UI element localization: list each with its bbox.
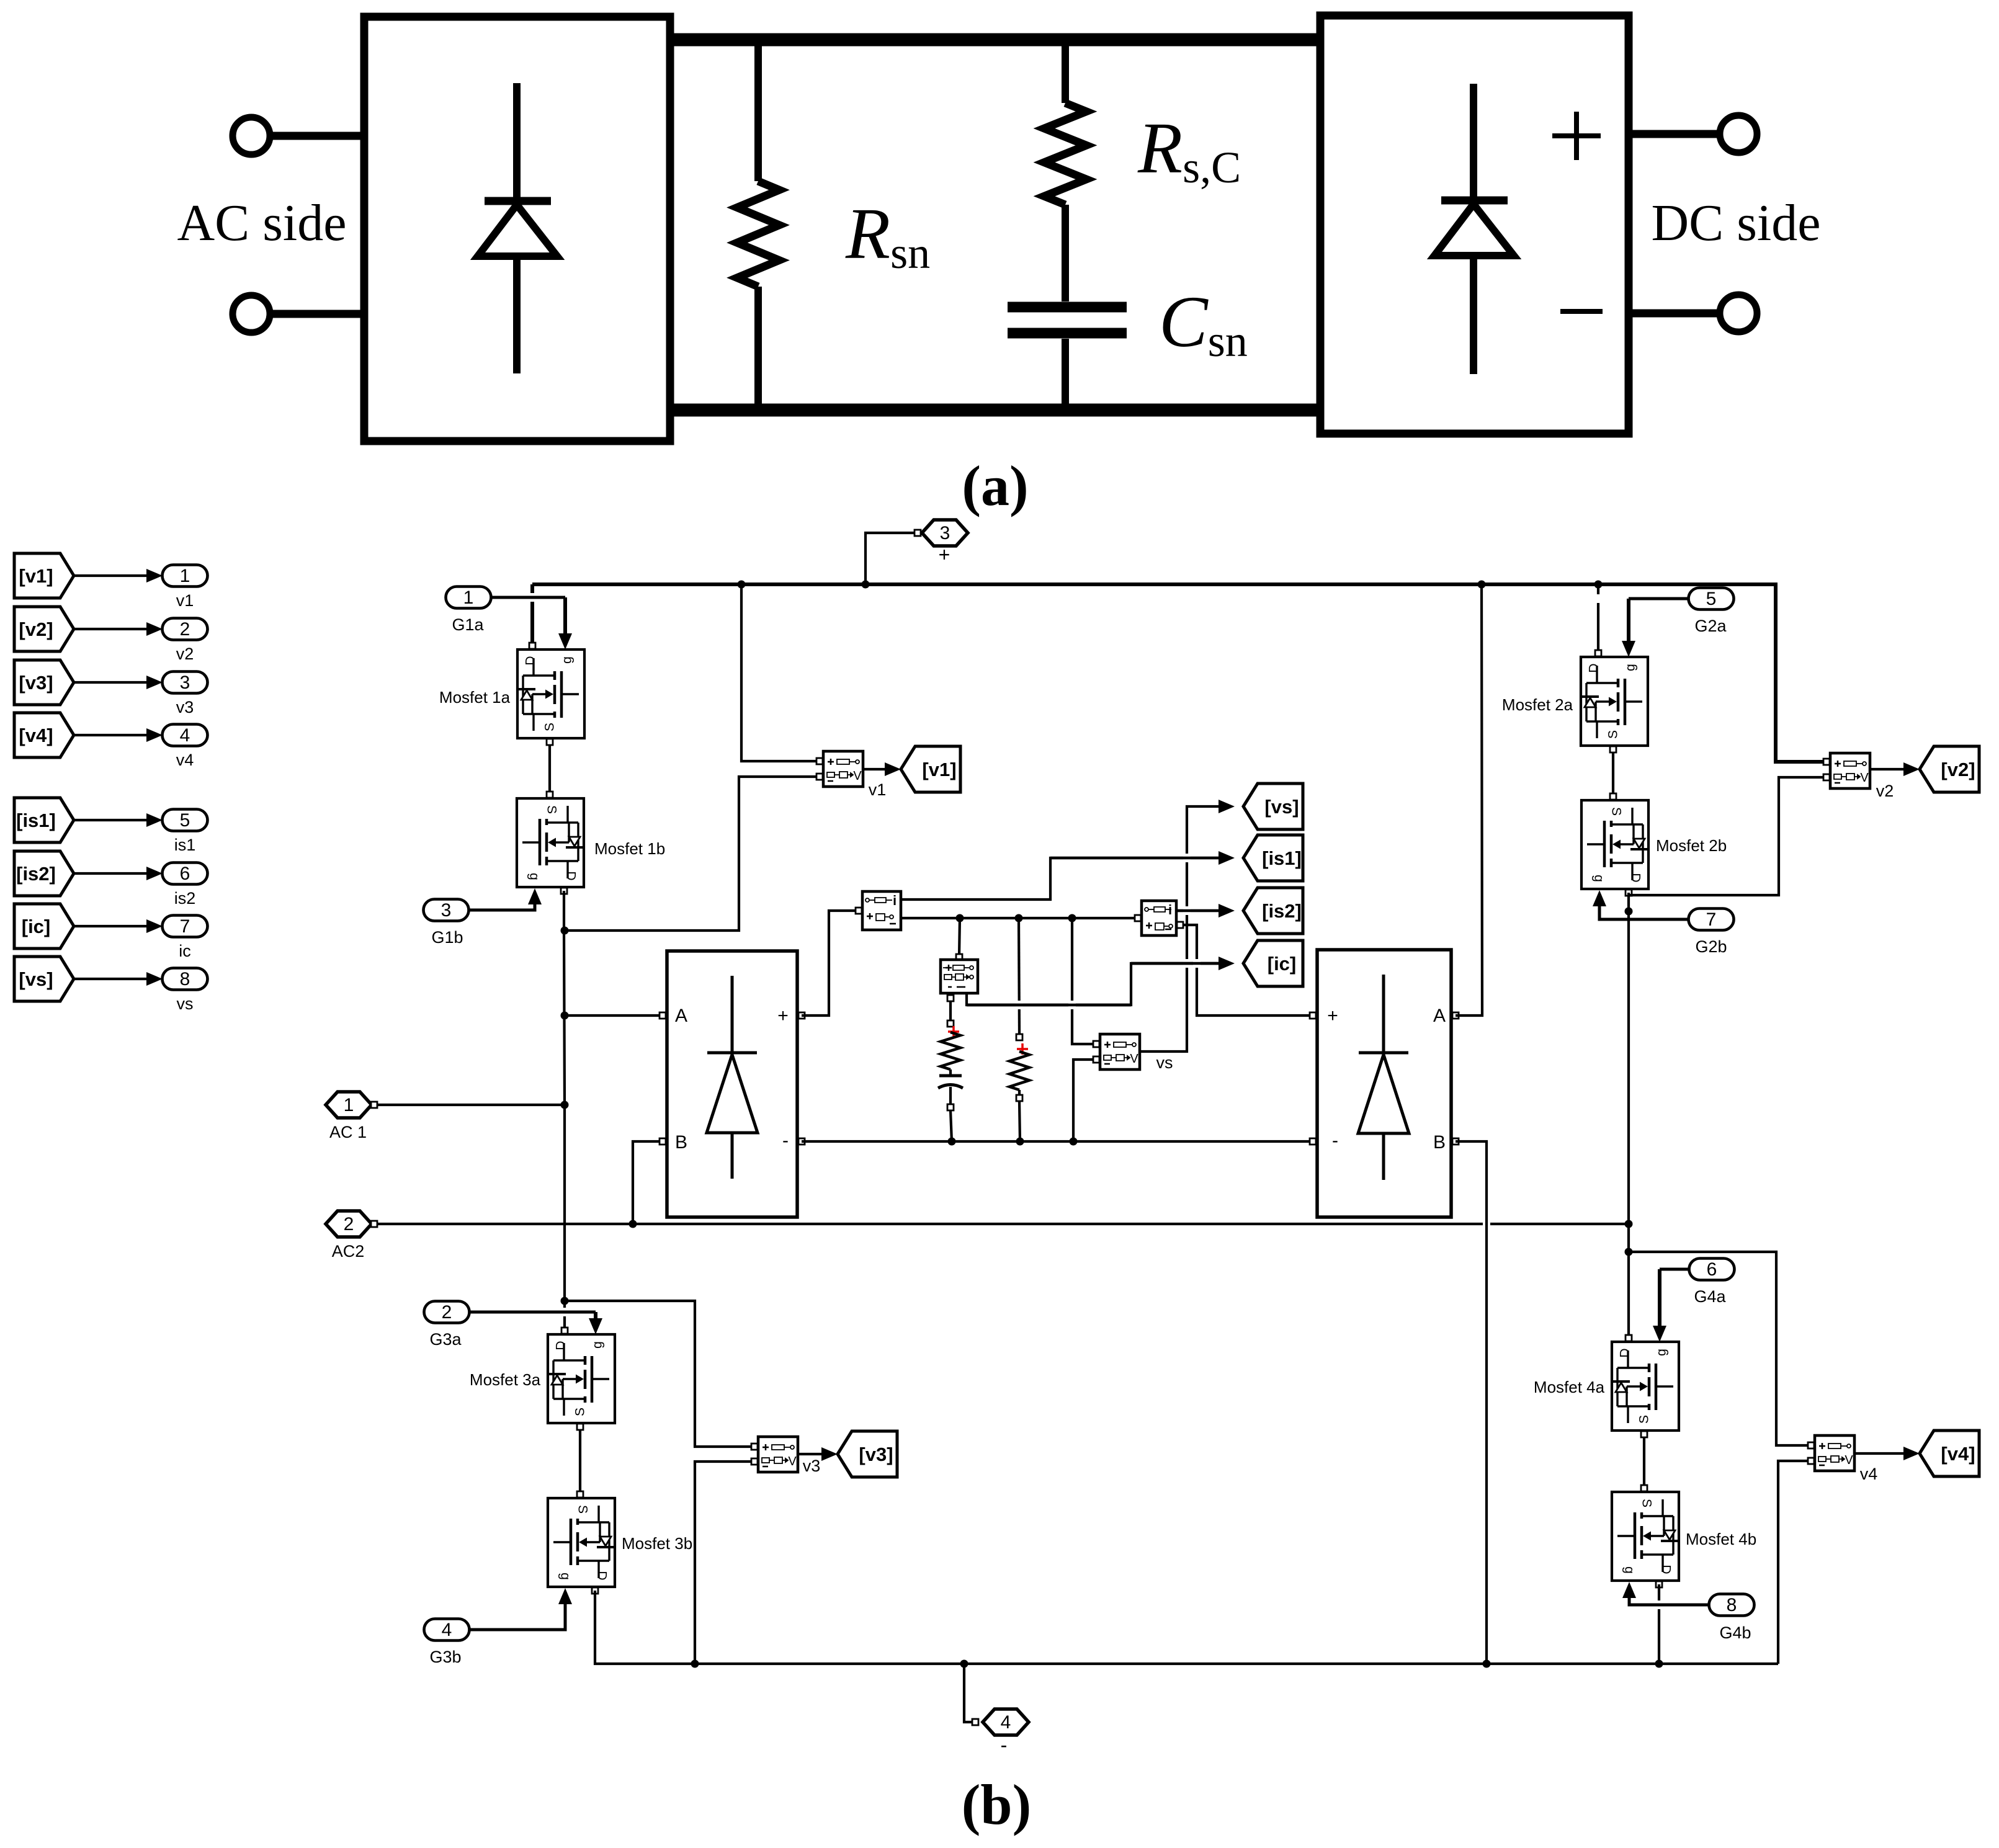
wire i1 - to i2 + (i-row) bbox=[901, 917, 1134, 919]
svg-text:[is1]: [is1] bbox=[1262, 847, 1302, 869]
pin D Mosfet 4b bbox=[1656, 1581, 1662, 1587]
junction rail / v3 - bbox=[691, 1660, 699, 1668]
junction on D node bbox=[1625, 908, 1633, 916]
gate arrow Mosfet 1a bbox=[558, 633, 572, 649]
transistor Mosfet 3b bbox=[548, 1498, 615, 1587]
plus sign DC polarity bbox=[1552, 112, 1601, 160]
junction on top bus for right bridge A bbox=[1478, 581, 1486, 589]
wire rail to port 4 bbox=[964, 1664, 972, 1722]
wire G3a to Mosfet 3a gate bbox=[469, 1311, 596, 1314]
inport 2 G3a bbox=[424, 1301, 470, 1323]
junction rail / port 4 bbox=[960, 1660, 968, 1668]
DC terminal top circle bbox=[1720, 115, 1757, 153]
svg-text:7: 7 bbox=[1706, 909, 1717, 930]
svg-text:G2a: G2a bbox=[1694, 617, 1727, 635]
inport 4 G3b bbox=[424, 1619, 470, 1641]
wire Mosfet 4a S to Mosfet 4b S bbox=[1643, 1431, 1645, 1492]
svg-text:+: + bbox=[777, 1006, 789, 1026]
svg-text:v4: v4 bbox=[1860, 1465, 1878, 1483]
wire left bridge + up to i1 bbox=[802, 911, 856, 1016]
junction bridge A branch bbox=[561, 1012, 569, 1020]
wire rail to v4 - bbox=[1778, 1461, 1807, 1664]
From tag [is1] bbox=[14, 798, 74, 842]
svg-text:+: + bbox=[1327, 1006, 1338, 1026]
svg-text:v1: v1 bbox=[176, 591, 194, 610]
svg-text:5: 5 bbox=[1706, 589, 1717, 609]
wire Mosfet2b D down to Mosfet4a D bbox=[1627, 893, 1630, 1338]
wire DC minus terminal bbox=[1629, 310, 1719, 318]
wire Mosfet 1a S to Mosfet 1b S bbox=[548, 738, 551, 798]
svg-text:2: 2 bbox=[344, 1214, 354, 1234]
svg-text:V: V bbox=[1845, 1453, 1853, 1467]
conserving port 3 (+) bbox=[922, 520, 968, 546]
svg-text:vs: vs bbox=[1156, 1053, 1173, 1072]
svg-text:[is2]: [is2] bbox=[16, 863, 56, 885]
wire i-row to vs + bbox=[1072, 918, 1093, 1044]
wire minus rail between bridges bbox=[802, 1140, 1313, 1143]
svg-text:AC2: AC2 bbox=[332, 1242, 365, 1261]
svg-text:g: g bbox=[560, 656, 575, 664]
wire AC top terminal to rectifier block bbox=[271, 132, 366, 140]
gate arrow Mosfet 2a bbox=[1622, 641, 1635, 657]
wire i-row down to resistor branch bbox=[1019, 918, 1019, 1035]
wire bus to Mosfet 2a D bbox=[1597, 584, 1599, 653]
svg-text:g: g bbox=[1655, 1349, 1669, 1356]
resistor Rs,C bbox=[1062, 40, 1069, 103]
svg-text:Mosfet 4a: Mosfet 4a bbox=[1534, 1378, 1605, 1396]
wire G3b to Mosfet 3b gate bbox=[469, 1600, 565, 1630]
gate arrow Mosfet 1b bbox=[528, 888, 542, 904]
goto tag [v2] bbox=[1920, 746, 1979, 792]
svg-text:Csn: Csn bbox=[1159, 281, 1248, 366]
svg-text:Mosfet 4b: Mosfet 4b bbox=[1686, 1530, 1756, 1548]
svg-text:6: 6 bbox=[1707, 1259, 1717, 1280]
svg-text:S: S bbox=[576, 1505, 590, 1514]
diode inside left bridge bbox=[707, 976, 757, 1179]
junction on top bus for Mosfet 2a D bbox=[1594, 581, 1603, 589]
voltage measurement v2 bbox=[1830, 753, 1870, 788]
wire D node to v2 - bbox=[1629, 777, 1823, 895]
svg-text:S: S bbox=[545, 805, 559, 814]
svg-text:5: 5 bbox=[180, 810, 190, 831]
junction i-row / ic meas bbox=[956, 914, 964, 922]
svg-text:S: S bbox=[1637, 1415, 1652, 1424]
svg-text:+: + bbox=[939, 543, 950, 566]
svg-text:g: g bbox=[1622, 1566, 1637, 1574]
From tag [is2] bbox=[14, 851, 74, 896]
wire bus to v1 + bbox=[741, 584, 816, 761]
svg-text:B: B bbox=[1433, 1132, 1446, 1153]
svg-text:ic: ic bbox=[179, 942, 191, 960]
svg-text:7: 7 bbox=[180, 916, 190, 937]
transistor Mosfet 1a bbox=[517, 649, 584, 738]
AC-side rectifier block U1 bbox=[364, 17, 670, 441]
svg-text:[is1]: [is1] bbox=[16, 810, 56, 831]
svg-text:v1: v1 bbox=[869, 780, 887, 799]
pin D Mosfet 2b bbox=[1626, 890, 1632, 896]
current measurement i2 bbox=[1142, 901, 1176, 935]
svg-text:v2: v2 bbox=[1876, 782, 1894, 800]
wire Mosfet 2a S to Mosfet 2b S bbox=[1612, 746, 1614, 800]
junction minus rail / vs - bbox=[1070, 1138, 1078, 1146]
inport 5 G2a bbox=[1689, 588, 1734, 610]
wire [vs] to outport 8 bbox=[74, 978, 149, 980]
From tag [vs] bbox=[14, 957, 74, 1001]
inport 7 G2b bbox=[1689, 909, 1734, 931]
svg-text:G2b: G2b bbox=[1695, 937, 1727, 956]
junction v3+ branch bbox=[561, 1297, 569, 1305]
From tag [v1] bbox=[14, 553, 74, 598]
From tag [v4] bbox=[14, 713, 74, 757]
pin D Mosfet 1b bbox=[561, 888, 567, 894]
wire G4b to Mosfet 4b gate bbox=[1629, 1594, 1709, 1605]
From tag [ic] bbox=[14, 904, 74, 949]
current measurement block (ic) bbox=[941, 960, 978, 993]
wire v4 to goto [v4] bbox=[1854, 1452, 1907, 1455]
wire top bus node to v2 + bbox=[532, 584, 1823, 762]
svg-text:v3: v3 bbox=[803, 1457, 821, 1475]
minus sign DC polarity bbox=[1560, 309, 1603, 314]
svg-text:S: S bbox=[543, 723, 557, 731]
wire i2 i-output to goto [is2] bbox=[1176, 909, 1225, 912]
svg-text:g: g bbox=[1624, 664, 1638, 671]
svg-text:i: i bbox=[893, 893, 897, 908]
svg-text:DC side: DC side bbox=[1652, 194, 1821, 252]
svg-text:[v1]: [v1] bbox=[19, 565, 53, 587]
svg-text:g: g bbox=[591, 1341, 605, 1349]
svg-text:i: i bbox=[1168, 902, 1172, 917]
wire crossing gaps bbox=[529, 593, 536, 602]
transistor Mosfet 1b bbox=[517, 798, 584, 887]
svg-text:[is2]: [is2] bbox=[1262, 900, 1302, 922]
pin D Mosfet 3b bbox=[592, 1587, 598, 1594]
svg-text:A: A bbox=[1433, 1006, 1446, 1026]
wire DC plus terminal bbox=[1629, 130, 1719, 138]
svg-text:4: 4 bbox=[442, 1620, 452, 1640]
bottom rail wire bbox=[595, 1591, 1778, 1664]
wire [v3] to outport 3 bbox=[74, 681, 149, 684]
current measurement i1 bbox=[862, 891, 901, 930]
svg-text:[v2]: [v2] bbox=[19, 618, 53, 640]
transistor Mosfet 4a bbox=[1612, 1342, 1679, 1431]
wire [v4] to outport 4 bbox=[74, 734, 149, 736]
wire G2a to Mosfet 2a gate bbox=[1629, 597, 1689, 600]
svg-text:(b): (b) bbox=[962, 1773, 1031, 1836]
wire AC1 to node bbox=[378, 1104, 565, 1106]
wire vs output to goto [vs] bbox=[1140, 806, 1225, 1051]
wire v1 to goto [v1] bbox=[863, 768, 888, 770]
svg-text:is2: is2 bbox=[174, 889, 196, 908]
svg-text:-: - bbox=[782, 1130, 789, 1151]
wire Mosfet 3a S to Mosfet 3b S bbox=[579, 1423, 581, 1498]
svg-text:Mosfet 3a: Mosfet 3a bbox=[470, 1370, 541, 1389]
wire right bridge A up to bus bbox=[1456, 584, 1482, 1016]
svg-text:V: V bbox=[853, 769, 862, 783]
wire G1b to Mosfet 1b gate bbox=[468, 901, 535, 910]
svg-text:[v4]: [v4] bbox=[1941, 1443, 1975, 1465]
svg-text:G1a: G1a bbox=[452, 615, 484, 634]
svg-text:G3a: G3a bbox=[429, 1330, 462, 1349]
svg-text:[ic]: [ic] bbox=[1268, 953, 1297, 975]
goto tag [is2] bbox=[1243, 888, 1303, 934]
diode inside right bridge bbox=[1359, 975, 1408, 1180]
svg-text:Rsn: Rsn bbox=[845, 193, 930, 278]
svg-text:v2: v2 bbox=[176, 645, 194, 663]
wire D node to v4 + bbox=[1629, 1252, 1807, 1445]
outport 6 bbox=[163, 863, 208, 885]
svg-text:S: S bbox=[573, 1408, 588, 1416]
svg-text:[vs]: [vs] bbox=[19, 968, 53, 990]
inport 8 G4b bbox=[1709, 1594, 1755, 1616]
svg-text:Mosfet 1a: Mosfet 1a bbox=[439, 688, 511, 707]
svg-text:4: 4 bbox=[1001, 1712, 1011, 1733]
svg-text:g: g bbox=[527, 873, 542, 880]
red polarity + of RC branch bbox=[948, 1026, 959, 1037]
svg-text:S: S bbox=[1606, 730, 1621, 739]
wire AC2 rail bbox=[378, 1223, 1483, 1225]
junction AC2 to left bridge B bbox=[629, 1220, 637, 1228]
AC terminal top circle bbox=[233, 117, 270, 154]
wire i2 - to right bridge + bbox=[1180, 925, 1309, 1016]
junction AC2 into Mosfet2bD/Mosfet4aD node bbox=[1625, 1220, 1633, 1228]
svg-text:2: 2 bbox=[180, 619, 190, 640]
svg-text:v4: v4 bbox=[176, 751, 194, 769]
AC terminal bottom circle bbox=[233, 295, 270, 333]
wire G2b to Mosfet 2b gate bbox=[1599, 903, 1689, 919]
conserving port 4 (-) bbox=[983, 1709, 1029, 1735]
outport 8 bbox=[163, 968, 208, 990]
outport 3 bbox=[163, 672, 208, 694]
wire ic signal to goto [ic] bbox=[967, 963, 1225, 1005]
svg-text:-: - bbox=[1332, 1130, 1338, 1151]
svg-text:8: 8 bbox=[180, 969, 190, 989]
wire port 3 stub bbox=[865, 533, 914, 584]
svg-text:V: V bbox=[1860, 771, 1869, 785]
outport 5 bbox=[163, 810, 208, 831]
junction v4+ branch bbox=[1625, 1248, 1633, 1256]
resistor snubber R branch bbox=[1009, 1051, 1029, 1090]
svg-text:6: 6 bbox=[180, 864, 190, 884]
svg-text:D: D bbox=[554, 1341, 568, 1350]
gate arrow Mosfet 4a bbox=[1653, 1326, 1666, 1342]
svg-text:Mosfet 3b: Mosfet 3b bbox=[622, 1534, 692, 1553]
svg-text:AC side: AC side bbox=[177, 194, 347, 252]
conserving port AC2 bbox=[326, 1211, 372, 1237]
svg-text:B: B bbox=[675, 1132, 687, 1153]
svg-text:Mosfet 1b: Mosfet 1b bbox=[594, 839, 665, 858]
svg-text:v3: v3 bbox=[176, 698, 194, 716]
svg-text:A: A bbox=[675, 1006, 687, 1026]
resistor Rsn bbox=[754, 40, 762, 181]
svg-text:V: V bbox=[788, 1455, 797, 1468]
voltage measurement vs bbox=[1100, 1034, 1140, 1069]
From tag [v3] bbox=[14, 660, 74, 705]
wire left bridge B to AC2 bbox=[633, 1141, 663, 1224]
svg-text:[ic]: [ic] bbox=[22, 916, 51, 937]
voltage measurement v4 bbox=[1815, 1435, 1854, 1471]
svg-text:Rs,C: Rs,C bbox=[1137, 107, 1241, 192]
resistor of snubber RC branch bbox=[941, 1032, 960, 1069]
wire [is1] to outport 5 bbox=[74, 819, 149, 821]
svg-text:[v3]: [v3] bbox=[19, 672, 53, 694]
wire ic meas to RC branch bbox=[949, 1001, 952, 1022]
svg-text:AC 1: AC 1 bbox=[329, 1123, 367, 1141]
transistor Mosfet 4b bbox=[1612, 1492, 1679, 1581]
wire minus rail to vs - bbox=[1073, 1060, 1093, 1141]
svg-text:D: D bbox=[1618, 1348, 1632, 1357]
svg-text:[v1]: [v1] bbox=[922, 759, 956, 780]
svg-text:(a): (a) bbox=[962, 454, 1028, 517]
top bus wire between blocks bbox=[666, 33, 1324, 47]
junction on top bus for port 3 bbox=[862, 581, 870, 589]
junction v1- branch bbox=[561, 927, 569, 935]
junction rail / Mosfet 4b D bbox=[1655, 1660, 1663, 1668]
diode bridge right (Universal Bridge) bbox=[1317, 950, 1451, 1217]
wire v2 to goto [v2] bbox=[1870, 768, 1907, 770]
svg-text:vs: vs bbox=[177, 994, 194, 1013]
svg-text:S: S bbox=[1609, 807, 1624, 816]
goto tag [v1] bbox=[901, 746, 960, 792]
goto tag [ic] bbox=[1243, 940, 1303, 986]
svg-text:D: D bbox=[564, 871, 578, 880]
svg-text:1: 1 bbox=[463, 587, 474, 608]
diode D2 inside right block bbox=[1470, 84, 1477, 374]
svg-text:[v3]: [v3] bbox=[859, 1444, 893, 1465]
svg-text:1: 1 bbox=[180, 566, 190, 586]
svg-text:3: 3 bbox=[441, 900, 452, 921]
transistor Mosfet 2b bbox=[1581, 800, 1648, 889]
gate arrow Mosfet 3b bbox=[558, 1588, 572, 1604]
transistor Mosfet 2a bbox=[1581, 657, 1648, 746]
wire right bridge B down to bottom rail bbox=[1456, 1141, 1487, 1664]
wire i1 i-output to goto [is1] bbox=[901, 858, 1225, 899]
wire G1a to Mosfet 1a gate bbox=[491, 596, 565, 599]
svg-text:is1: is1 bbox=[174, 836, 196, 854]
wire Mosfet 4b D to rail bbox=[1658, 1584, 1660, 1664]
capacitor Csn bbox=[1008, 302, 1127, 313]
junction i-row / vs + bbox=[1068, 914, 1076, 922]
svg-text:1: 1 bbox=[344, 1095, 354, 1115]
svg-text:3: 3 bbox=[940, 523, 950, 543]
goto tag [v4] bbox=[1920, 1431, 1979, 1476]
outport 4 bbox=[163, 725, 208, 746]
wire [v2] to outport 2 bbox=[74, 628, 149, 630]
wire node to v3 + bbox=[565, 1301, 751, 1447]
transistor Mosfet 3a bbox=[548, 1334, 615, 1423]
svg-text:g: g bbox=[1592, 875, 1606, 882]
wire rail to v3 - bbox=[695, 1462, 751, 1664]
svg-text:4: 4 bbox=[180, 725, 190, 746]
wire v3 to goto [v3] bbox=[798, 1453, 825, 1455]
conserving port AC 1 bbox=[326, 1092, 372, 1118]
inport 1 G1a bbox=[446, 587, 491, 609]
svg-text:[vs]: [vs] bbox=[1264, 796, 1299, 818]
svg-text:V: V bbox=[1130, 1052, 1138, 1066]
pin D Mosfet 1a bbox=[529, 643, 535, 649]
junction minus rail / R branch bbox=[1016, 1138, 1024, 1146]
svg-text:G3b: G3b bbox=[429, 1648, 461, 1666]
diode D1 inside left block bbox=[513, 83, 521, 373]
svg-text:G4a: G4a bbox=[1694, 1287, 1726, 1306]
voltage measurement v1 bbox=[823, 751, 863, 787]
svg-text:D: D bbox=[524, 656, 538, 665]
svg-text:D: D bbox=[1587, 663, 1601, 672]
junction i-row / R branch bbox=[1015, 914, 1023, 922]
junction on top bus for v1+ bbox=[738, 581, 746, 589]
From tag [v2] bbox=[14, 607, 74, 651]
svg-text:Mosfet 2a: Mosfet 2a bbox=[1502, 695, 1573, 714]
gate arrow Mosfet 2b bbox=[1593, 890, 1606, 906]
svg-text:D: D bbox=[595, 1571, 609, 1580]
goto tag [v3] bbox=[838, 1431, 897, 1477]
wire [is2] to outport 6 bbox=[74, 872, 149, 875]
wire AC bottom terminal to rectifier block bbox=[271, 310, 366, 318]
diode bridge left (Universal Bridge) bbox=[667, 951, 797, 1217]
svg-text:Mosfet 2b: Mosfet 2b bbox=[1656, 836, 1727, 855]
bottom bus wire between blocks bbox=[666, 404, 1324, 417]
svg-text:[v4]: [v4] bbox=[19, 725, 53, 746]
wire G4a to Mosfet 4a gate bbox=[1660, 1268, 1689, 1271]
svg-text:[v2]: [v2] bbox=[1941, 759, 1975, 780]
svg-text:D: D bbox=[1659, 1565, 1673, 1574]
svg-text:D: D bbox=[1629, 873, 1643, 882]
outport 1 bbox=[163, 565, 208, 587]
svg-text:-: - bbox=[1001, 1734, 1008, 1756]
wire [v1] to outport 1 bbox=[74, 574, 149, 577]
wire node Mosfet1b D down to Mosfet3a D bbox=[564, 891, 565, 1331]
svg-text:G1b: G1b bbox=[431, 928, 463, 947]
wire i-row down to ic meas block bbox=[959, 918, 960, 956]
capacitor of snubber RC branch bbox=[939, 1074, 962, 1078]
wire [ic] to outport 7 bbox=[74, 925, 149, 927]
wire bus left end down to Mosfet 1a D bbox=[530, 600, 534, 646]
DC terminal bottom circle bbox=[1720, 295, 1757, 332]
svg-text:S: S bbox=[1640, 1499, 1654, 1507]
pin D Mosfet 3a bbox=[561, 1328, 568, 1334]
inport 6 G4a bbox=[1689, 1259, 1735, 1280]
svg-text:G4b: G4b bbox=[1719, 1623, 1751, 1642]
svg-text:8: 8 bbox=[1727, 1595, 1737, 1615]
svg-text:2: 2 bbox=[442, 1302, 452, 1323]
gate arrow Mosfet 3a bbox=[589, 1318, 602, 1334]
outport 2 bbox=[163, 618, 208, 640]
gate arrow Mosfet 4b bbox=[1622, 1582, 1636, 1598]
voltage measurement v3 bbox=[758, 1437, 798, 1472]
goto tag [is1] bbox=[1243, 835, 1303, 881]
goto tag [vs] bbox=[1243, 783, 1303, 829]
wire node to v1 - bbox=[565, 777, 816, 931]
junction rail / right bridge B bbox=[1483, 1660, 1491, 1668]
outport 7 bbox=[163, 916, 208, 937]
red polarity + of R branch bbox=[1017, 1043, 1028, 1055]
wire node to left bridge A bbox=[565, 1014, 663, 1017]
svg-text:3: 3 bbox=[180, 672, 190, 693]
junction minus rail / RC branch bbox=[948, 1138, 956, 1146]
pin D Mosfet 4a bbox=[1626, 1335, 1632, 1341]
svg-text:g: g bbox=[558, 1573, 573, 1580]
inport 3 G1b bbox=[424, 899, 469, 921]
junction AC1 bbox=[561, 1101, 569, 1109]
DC-side rectifier block U2 bbox=[1320, 16, 1629, 434]
